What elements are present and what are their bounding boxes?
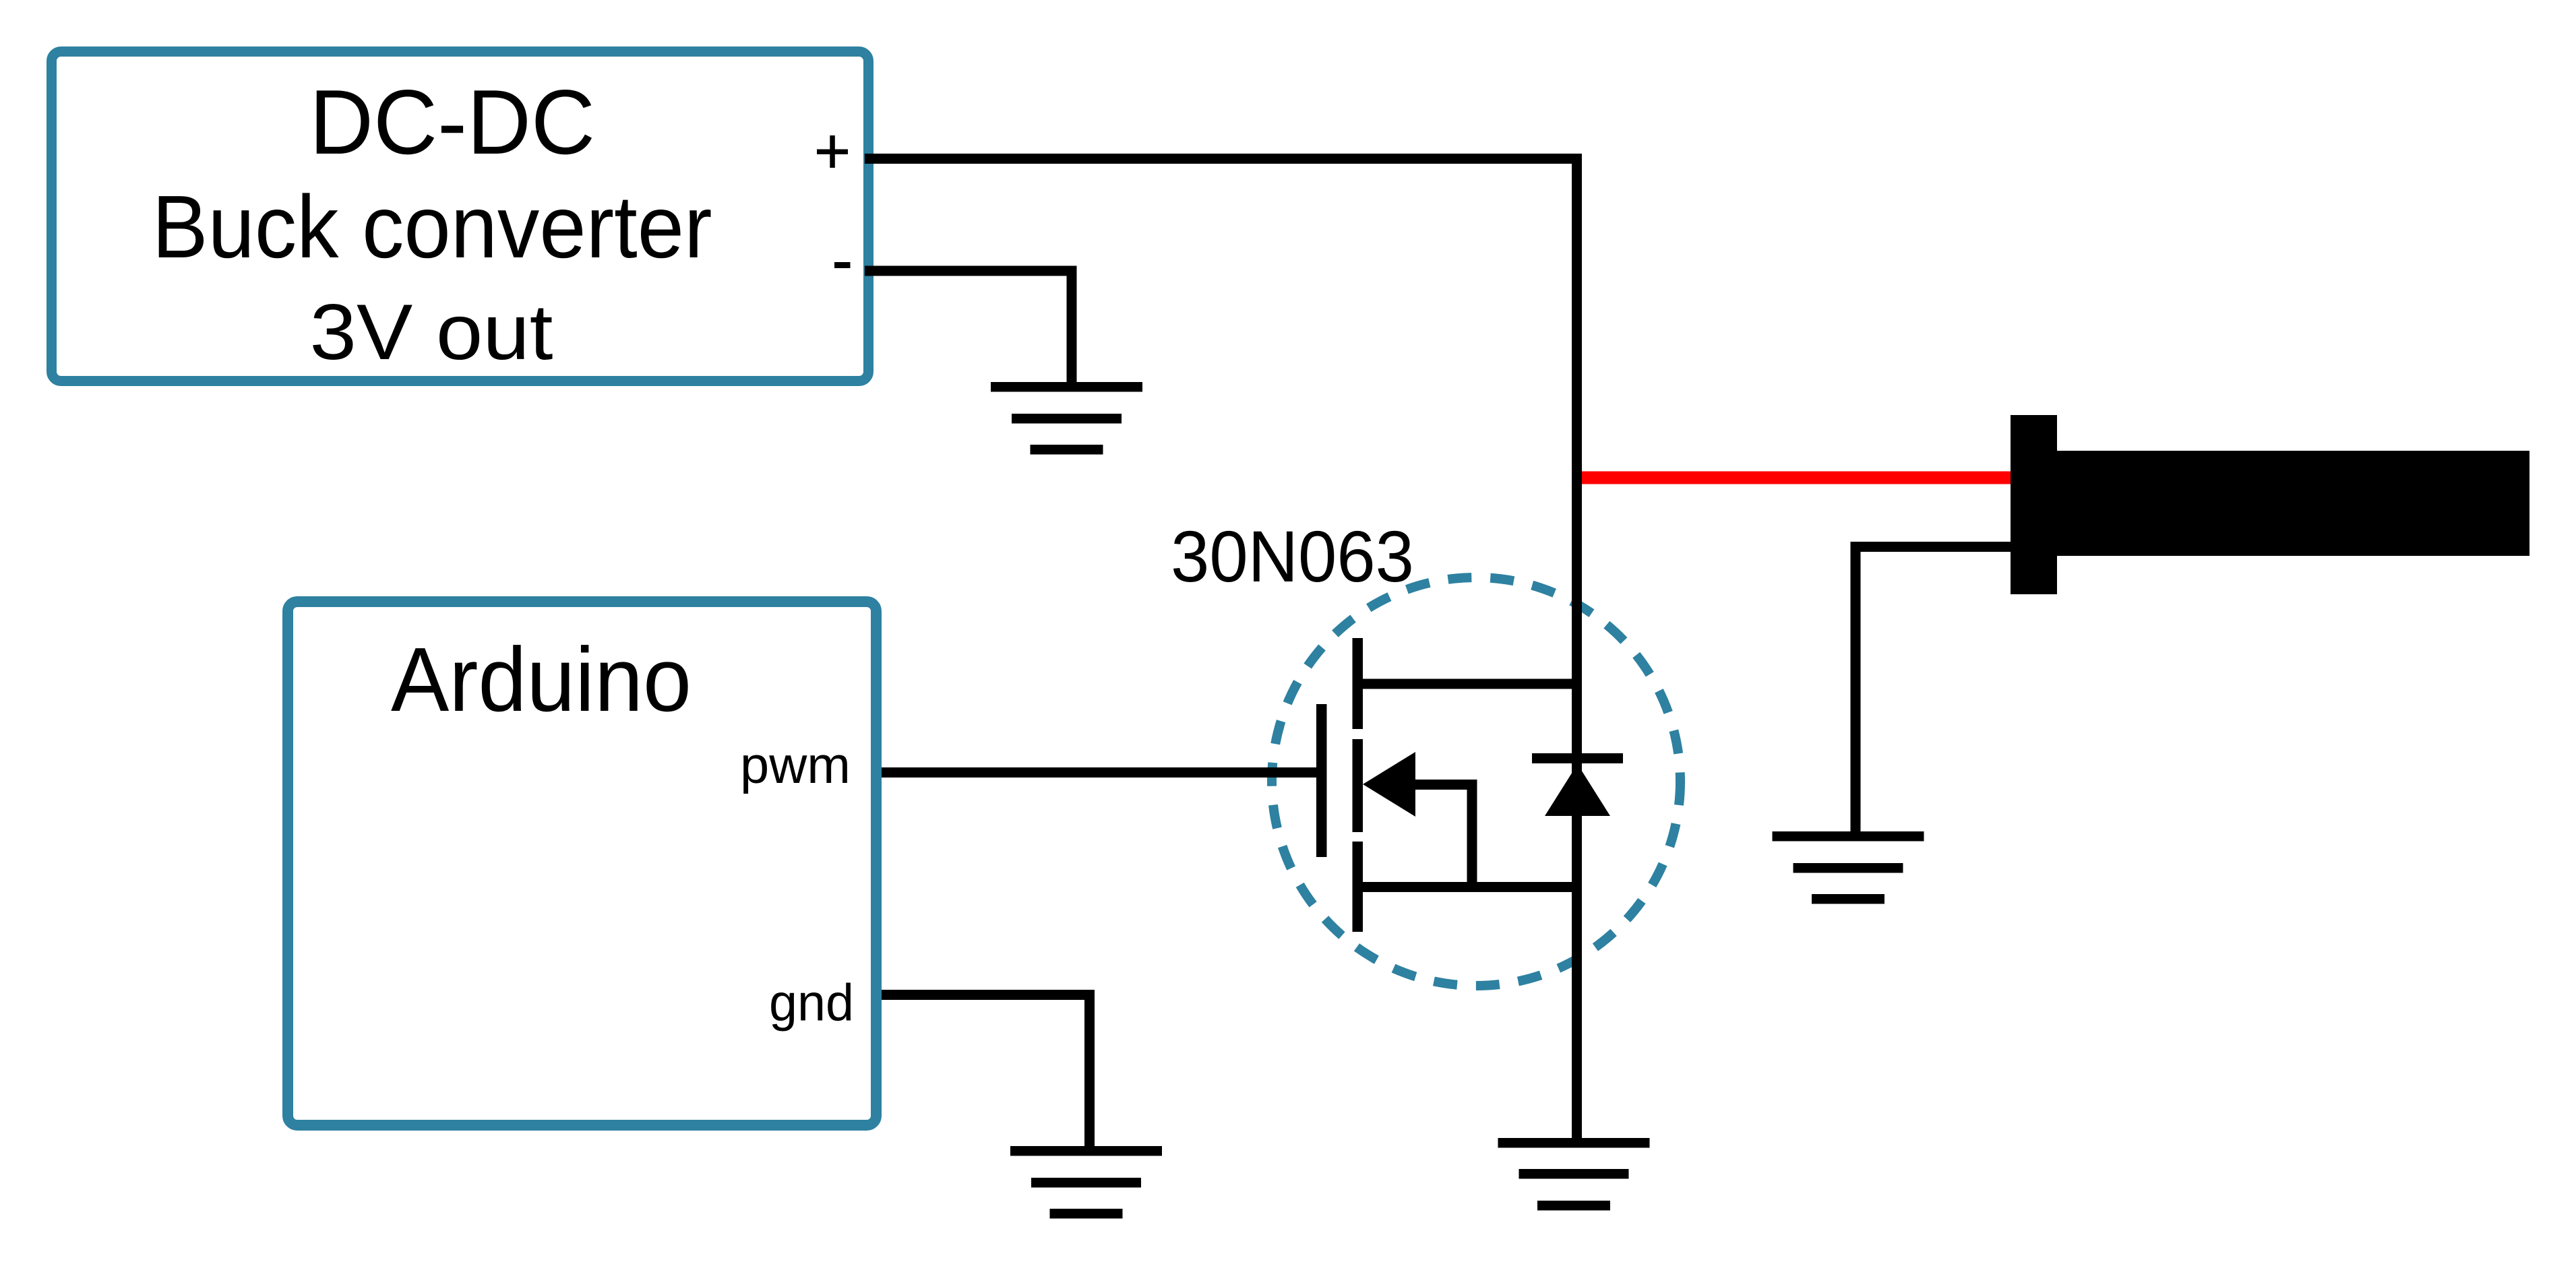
svg-text:pwm: pwm	[740, 736, 851, 794]
wire + from buck to drain node	[865, 159, 1577, 1141]
pin - label	[834, 262, 851, 268]
heater cartridge body	[2057, 451, 2529, 556]
wire - from buck to ground	[865, 271, 1072, 384]
transistor Q1 body arrow	[1363, 752, 1415, 817]
svg-text:30N063: 30N063	[1171, 515, 1414, 597]
wire heater positive (red)	[1573, 472, 2011, 484]
transistor Q1 gate bar	[1316, 704, 1327, 857]
svg-text:DC-DC: DC-DC	[309, 71, 595, 173]
diode D1 cathode bar	[1532, 753, 1623, 763]
pin + label	[817, 135, 848, 168]
transistor Q1 channel bar segment 2	[1353, 739, 1363, 832]
diode D1 triangle	[1545, 764, 1610, 816]
heater cartridge collar	[2011, 415, 2057, 594]
svg-text:3V out: 3V out	[310, 288, 553, 376]
svg-text:gnd: gnd	[769, 974, 854, 1032]
wire body connection	[1415, 785, 1472, 887]
ground G4 (mosfet source)	[1498, 1138, 1650, 1211]
svg-text:Buck converter: Buck converter	[152, 177, 712, 276]
ground G3 (heater)	[1773, 831, 1924, 904]
wire gnd from arduino to ground	[882, 995, 1090, 1149]
block U2 Arduino	[288, 602, 876, 1125]
block U1 DC-DC buck converter	[52, 52, 869, 381]
wire drain	[1357, 679, 1577, 689]
transistor Q1 channel bar segment 3	[1353, 842, 1363, 932]
wire heater return to ground	[1856, 547, 2011, 834]
ground G2 (arduino gnd)	[1010, 1146, 1162, 1219]
transistor Q1 30N063 dashed circle	[1272, 577, 1680, 986]
wire pwm from arduino to gate	[882, 767, 1316, 778]
ground G1 (buck -)	[991, 382, 1142, 455]
transistor Q1 channel bar segment 1	[1353, 638, 1363, 729]
svg-text:Arduino: Arduino	[391, 629, 692, 730]
wire source	[1357, 882, 1577, 892]
